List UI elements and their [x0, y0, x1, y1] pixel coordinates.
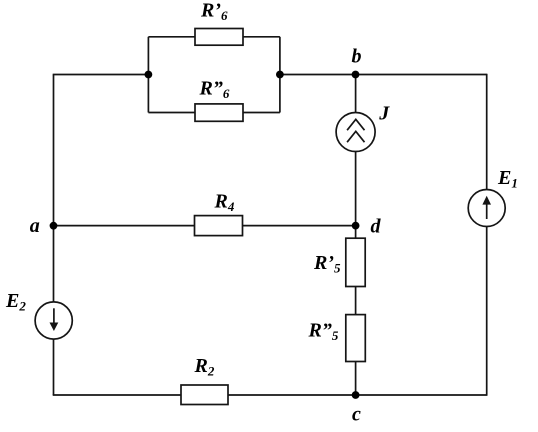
svg-text:J: J [378, 102, 390, 124]
current source J [336, 102, 390, 151]
wire: top horizontal from left corner to parallel-left junction [53, 74, 149, 76]
wire: top branch lead-out of R'6 [243, 36, 280, 38]
node c [352, 391, 361, 425]
wire: top horizontal from parallel-right junction through node b to top-right corner [280, 74, 487, 76]
svg-text:b: b [352, 46, 362, 68]
node: parallel-right junction [276, 71, 284, 79]
svg-text:a: a [30, 215, 40, 237]
svg-text:E2: E2 [5, 290, 26, 314]
svg-text:R”5: R”5 [308, 320, 339, 344]
voltage source E2 [5, 290, 72, 339]
wire: bottom branch lead-in to R''6 [148, 112, 195, 114]
voltage source E1 [468, 167, 518, 227]
svg-text:E1: E1 [497, 167, 518, 191]
wire: top branch lead-in to R'6 [148, 36, 195, 38]
resistor R'5 [313, 238, 365, 286]
wire: left vertical from top-left corner down to E2 top [53, 75, 55, 302]
wire: parallel loop right vertical riser [279, 37, 281, 113]
node: parallel-left junction [145, 71, 153, 79]
wire: parallel loop left vertical riser [147, 37, 149, 113]
wire: bottom branch lead-out of R''6 [243, 112, 280, 114]
resistor R2 [181, 355, 228, 405]
wire: R'5 to R''5 [355, 287, 357, 315]
svg-text:R2: R2 [194, 355, 215, 379]
wire: node a to R4 [54, 225, 195, 227]
wire: R4 to node d [243, 225, 356, 227]
node a [30, 215, 58, 237]
wire: node d down to R'5 [355, 226, 357, 239]
svg-text:R’6: R’6 [200, 0, 228, 23]
node d [352, 216, 382, 238]
svg-text:R’5: R’5 [313, 252, 341, 276]
wire: right vertical from top-right corner down to E1 top [486, 74, 488, 190]
node b [352, 46, 362, 79]
wire: bottom horizontal from bottom-left corner through node c to bottom-right corner [53, 394, 487, 396]
svg-text:c: c [352, 404, 361, 426]
wire: J source bottom down to node d [355, 152, 357, 226]
svg-text:d: d [371, 216, 382, 238]
svg-text:R”6: R”6 [199, 78, 230, 102]
wire: node b down to J source top [355, 75, 357, 113]
resistor R''6 [195, 78, 243, 122]
resistor R'6 [195, 0, 243, 45]
resistor R4 [195, 191, 243, 236]
wire: right vertical from E1 bottom to bottom-right corner [486, 227, 488, 396]
wire: left vertical from E2 bottom to bottom-left corner [53, 339, 55, 395]
wire: R''5 down to node c [355, 362, 357, 396]
resistor R''5 [308, 315, 366, 362]
svg-text:R4: R4 [214, 191, 235, 215]
